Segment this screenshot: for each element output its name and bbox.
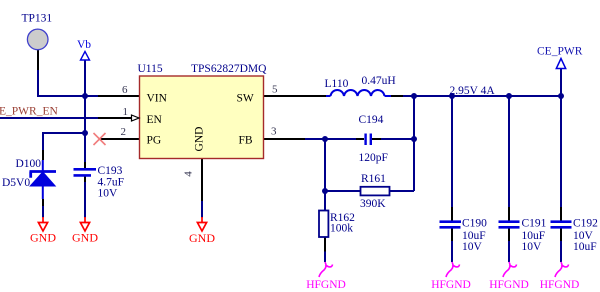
svg-text:10V: 10V <box>98 188 119 200</box>
svg-text:120pF: 120pF <box>359 152 388 164</box>
svg-text:CE_PWR: CE_PWR <box>537 46 583 58</box>
svg-text:C193: C193 <box>98 165 123 177</box>
svg-text:0.47uH: 0.47uH <box>362 75 396 87</box>
svg-text:TPS62827DMQ: TPS62827DMQ <box>191 63 267 75</box>
svg-text:100k: 100k <box>330 223 353 235</box>
svg-text:6: 6 <box>122 84 128 96</box>
svg-text:C190: C190 <box>462 218 487 230</box>
svg-text:FB: FB <box>239 135 253 147</box>
svg-text:L110: L110 <box>325 78 349 90</box>
svg-text:10uF: 10uF <box>573 241 597 253</box>
svg-text:1: 1 <box>123 106 129 118</box>
svg-text:TP131: TP131 <box>22 13 53 25</box>
svg-text:GND: GND <box>194 127 206 152</box>
svg-text:D100: D100 <box>16 158 42 170</box>
svg-text:HFGND: HFGND <box>489 279 529 291</box>
svg-text:5: 5 <box>272 84 278 96</box>
svg-text:D5V0: D5V0 <box>2 177 30 189</box>
svg-text:GND: GND <box>72 231 98 245</box>
svg-text:EN: EN <box>147 114 163 126</box>
svg-text:C194: C194 <box>359 114 384 126</box>
svg-text:4: 4 <box>183 171 195 177</box>
svg-text:PG: PG <box>147 135 162 147</box>
svg-text:2.95V 4A: 2.95V 4A <box>450 85 496 97</box>
svg-text:VIN: VIN <box>147 93 168 105</box>
svg-text:HFGND: HFGND <box>540 279 580 291</box>
svg-text:10V: 10V <box>522 241 543 253</box>
svg-text:2: 2 <box>121 126 127 138</box>
svg-text:Vb: Vb <box>77 39 91 51</box>
svg-text:R161: R161 <box>361 173 386 185</box>
svg-text:E_PWR_EN: E_PWR_EN <box>0 106 58 118</box>
svg-text:C191: C191 <box>522 218 547 230</box>
svg-text:3: 3 <box>271 126 277 138</box>
svg-text:HFGND: HFGND <box>306 279 346 291</box>
svg-text:C192: C192 <box>573 218 598 230</box>
svg-text:U115: U115 <box>138 63 163 75</box>
svg-text:390K: 390K <box>360 198 386 210</box>
svg-text:HFGND: HFGND <box>431 279 471 291</box>
svg-text:GND: GND <box>30 231 56 245</box>
svg-text:10V: 10V <box>462 241 483 253</box>
svg-text:GND: GND <box>189 231 215 245</box>
svg-text:SW: SW <box>237 93 254 105</box>
